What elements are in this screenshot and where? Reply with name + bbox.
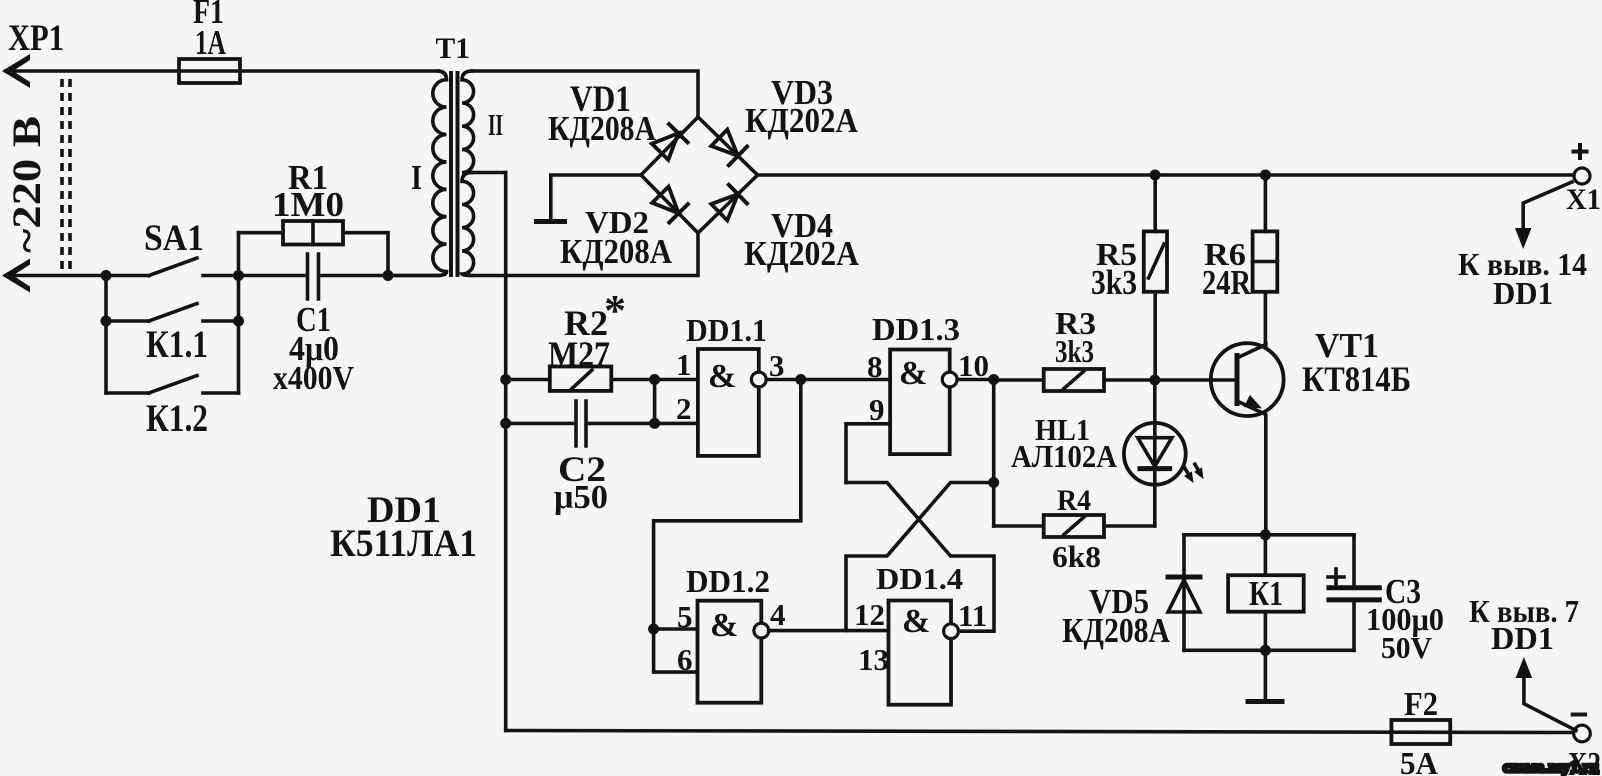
node K1.1 right (233, 316, 244, 327)
svg-text:M27: M27 (548, 334, 610, 374)
resistor R5 leads (1153, 175, 1157, 380)
node R2 left (500, 374, 511, 385)
svg-text:R4: R4 (1057, 485, 1091, 517)
resistor R6 power mark (1253, 260, 1278, 264)
wire C2 to pin2 (590, 422, 698, 426)
relay K1 coil leads (1264, 535, 1268, 651)
svg-text:6k8: 6k8 (1052, 540, 1101, 574)
svg-text:II: II (488, 108, 503, 142)
node C2 left (500, 418, 511, 429)
svg-text:DD1.4: DD1.4 (876, 562, 963, 596)
wire R2 to pin1 (611, 378, 698, 382)
switch SA1 blade (149, 258, 197, 276)
svg-text:АЛ102А: АЛ102А (1011, 439, 1117, 474)
svg-text:DD1: DD1 (1493, 276, 1553, 311)
transistor VT1 emitter arrow (1244, 395, 1265, 415)
gate DD1.2 box (698, 601, 762, 703)
wire secondary bottom to bridge (472, 233, 698, 276)
LED HL1 triangle (1138, 438, 1172, 467)
diode VD4 (709, 183, 749, 223)
wire logic bus left vertical (504, 173, 508, 731)
capacitor C2 plates (576, 401, 586, 446)
svg-text:50V: 50V (1381, 631, 1432, 665)
resistor R2 power mark (572, 370, 592, 389)
wire K1.2 row (106, 391, 239, 395)
wire left bus vertical (104, 276, 108, 394)
switch K1.2 blade (149, 376, 197, 394)
node collector relay (1260, 529, 1271, 540)
svg-text:К1.1: К1.1 (146, 323, 208, 366)
capacitor C3 plates (1329, 588, 1379, 600)
wire C1 right (322, 274, 438, 278)
wire top mains from XP1 arrow to transformer (6, 69, 438, 73)
LED HL1 circle (1124, 423, 1186, 485)
svg-text:3: 3 (769, 348, 785, 383)
LED HL1 cathode bar (1140, 466, 1170, 471)
svg-text:КД208А: КД208А (548, 109, 656, 148)
svg-text:10: 10 (958, 348, 989, 383)
svg-text:&: & (708, 358, 736, 395)
terminal X2 (1574, 725, 1591, 742)
resistor R4 (1044, 515, 1104, 537)
svg-text:SA1: SA1 (144, 218, 204, 259)
switch K1.1 blade (149, 304, 197, 322)
diode VD2 (650, 184, 690, 224)
wire SA1 right to node (203, 274, 239, 278)
latch cross coupling (846, 483, 994, 632)
wire R2 row left (506, 378, 550, 382)
wire pin5 (654, 627, 698, 631)
capacitor C3 leads (1352, 535, 1356, 651)
node relay bottom (1260, 645, 1271, 656)
node pin5 (648, 624, 659, 635)
svg-text:1: 1 (676, 347, 692, 382)
node K1.1 left (101, 316, 112, 327)
resistor R3 power mark (1064, 371, 1084, 389)
svg-text:X1: X1 (1566, 184, 1601, 216)
transformer T1 core (451, 71, 458, 277)
wire plus rail (758, 173, 1575, 177)
svg-text:*: * (604, 286, 626, 335)
diode VD5 cathode bar (1168, 575, 1200, 580)
fuse F1 (179, 59, 240, 83)
svg-text:11: 11 (958, 598, 987, 633)
svg-text:КД208А: КД208А (560, 232, 672, 271)
connector XP1 arrow bottom (2, 259, 30, 293)
transformer T1 primary winding I (388, 71, 447, 276)
terminal X1 plus sign (1572, 143, 1589, 160)
transistor VT1 emitter (1237, 401, 1266, 535)
svg-text:К511ЛА1: К511ЛА1 (330, 522, 477, 565)
wire relay ground lead (1264, 650, 1268, 699)
svg-text:9: 9 (869, 392, 885, 427)
wire bottom rail (506, 731, 1574, 733)
svg-text:К1.2: К1.2 (146, 397, 208, 440)
ground relay (1248, 699, 1282, 704)
diode VD3 (709, 127, 749, 167)
svg-text:1A: 1A (195, 23, 226, 62)
gate DD1.4 box (889, 601, 952, 705)
node pin1 (649, 374, 660, 385)
gate DD1.4 output circle (944, 624, 959, 639)
svg-text:F2: F2 (1404, 686, 1438, 723)
svg-text:К1: К1 (1249, 574, 1283, 613)
arrow to DD1 pin 7 (1524, 672, 1576, 731)
wire C2 row left (506, 422, 573, 426)
relay K1 coil (1228, 575, 1304, 612)
svg-text:13: 13 (858, 642, 889, 677)
wire pin9 (846, 424, 890, 483)
svg-text:T1: T1 (436, 32, 471, 65)
arrow to DD1 pin 14 (1523, 182, 1572, 234)
fuse F2 (1391, 720, 1450, 744)
terminal X1 (1574, 168, 1590, 184)
wire pin6 loop (654, 629, 698, 672)
gate DD1.3 output circle (942, 372, 957, 387)
transistor VT1 base bar (1235, 353, 1240, 406)
svg-text:КД202А: КД202А (745, 101, 858, 140)
svg-text:DD1: DD1 (1491, 621, 1554, 656)
resistor R5 (1144, 231, 1167, 291)
wire pins1-2 tie (653, 380, 657, 424)
wire output3 to pin8 (766, 378, 890, 382)
wire riser output10 to R4 row (992, 380, 996, 527)
svg-text:μ50: μ50 (554, 479, 608, 516)
node cross right (988, 477, 999, 488)
gate DD1.3 box (890, 350, 950, 455)
gate DD1.1 box (698, 349, 759, 456)
relay block bottom rail (1184, 648, 1354, 652)
svg-text:8: 8 (867, 349, 883, 384)
resistor R2 (550, 367, 612, 391)
svg-text:3k3: 3k3 (1091, 263, 1137, 302)
ground bridge (537, 219, 565, 224)
wire R4 row (994, 524, 1155, 528)
node R6 top (1260, 170, 1271, 181)
wire output10 to R3 (957, 378, 994, 382)
node base (1149, 375, 1160, 386)
resistor R4 power mark (1064, 517, 1084, 535)
svg-text:~220 В: ~220 В (4, 116, 49, 253)
svg-text:DD1.3: DD1.3 (872, 312, 960, 347)
svg-text:XP1: XP1 (8, 18, 64, 59)
svg-text:12: 12 (854, 597, 885, 632)
resistor R1 (283, 221, 343, 245)
transistor VT1 circle (1211, 343, 1284, 416)
resistor R6 leads (1264, 175, 1268, 345)
resistor R5 power mark (1149, 244, 1165, 278)
wire K1.1 row (106, 319, 239, 323)
svg-text:КТ814Б: КТ814Б (1302, 359, 1411, 399)
svg-text:x400V: x400V (273, 360, 354, 397)
node output3 (795, 374, 806, 385)
wire secondary top to bridge (472, 71, 698, 117)
node output10 (988, 374, 999, 385)
resistor R6 (1253, 231, 1278, 291)
svg-text:DD1.2: DD1.2 (686, 564, 770, 599)
wire output4 to pin12 (769, 629, 889, 633)
wire secondary tap to logic bus (472, 171, 506, 175)
svg-text:5: 5 (677, 599, 693, 634)
node mains left bus (101, 270, 112, 281)
svg-text:DD1.1: DD1.1 (686, 313, 767, 348)
transformer T1 secondary upper winding II (462, 71, 474, 173)
connector XP1 arrow top (2, 54, 30, 88)
gate DD1.1 output circle (751, 372, 766, 387)
resistor R1 leads (239, 233, 389, 276)
LED HL1 arrows (1180, 464, 1197, 485)
svg-text:&: & (899, 355, 927, 392)
svg-text:2: 2 (676, 391, 692, 426)
diode VD5 triangle (1168, 580, 1200, 612)
wire bridge left to ground (551, 175, 641, 219)
transistor VT1 collector (1237, 345, 1266, 359)
wire R3 row (994, 378, 1237, 382)
terminal X2 minus sign (1571, 713, 1587, 717)
LED HL1 lead (1153, 380, 1157, 526)
svg-text:&: & (902, 603, 930, 640)
diode bridge sides (641, 117, 758, 233)
svg-text:КД202А: КД202А (744, 234, 859, 273)
gate DD1.2 output circle (754, 623, 769, 638)
svg-text:1M0: 1M0 (272, 185, 344, 224)
capacitor C3 plus (1328, 569, 1344, 585)
svg-text:КД208А: КД208А (1062, 611, 1170, 650)
node SA1 right (233, 270, 244, 281)
node R5 top (1150, 170, 1161, 181)
resistor R1 power mark (311, 221, 315, 245)
svg-text:&: & (710, 607, 738, 644)
wire bottom mains left (6, 274, 149, 278)
diode VD5 leads (1182, 535, 1186, 651)
mains cord dashed double line (62, 79, 70, 272)
svg-text:4: 4 (770, 597, 786, 632)
capacitor C1 plates (308, 254, 319, 299)
resistor R3 (1044, 369, 1104, 391)
svg-text:схема.my1.ru: схема.my1.ru (1503, 759, 1599, 776)
svg-text:6: 6 (677, 642, 693, 677)
transformer T1 secondary lower winding (462, 173, 474, 276)
diode VD1 (649, 123, 689, 163)
svg-text:3k3: 3k3 (1055, 334, 1094, 369)
svg-text:5A: 5A (1400, 746, 1438, 776)
node C1 right (383, 270, 394, 281)
wire mains to C1 (239, 274, 305, 278)
node pin2 (649, 418, 660, 429)
svg-text:I: I (411, 158, 422, 197)
svg-text:24R: 24R (1202, 263, 1252, 302)
relay block top rail (1184, 533, 1354, 537)
wire right switch bus vertical (237, 233, 241, 393)
wire output3 riser to DD1.2 inputs (654, 380, 801, 630)
